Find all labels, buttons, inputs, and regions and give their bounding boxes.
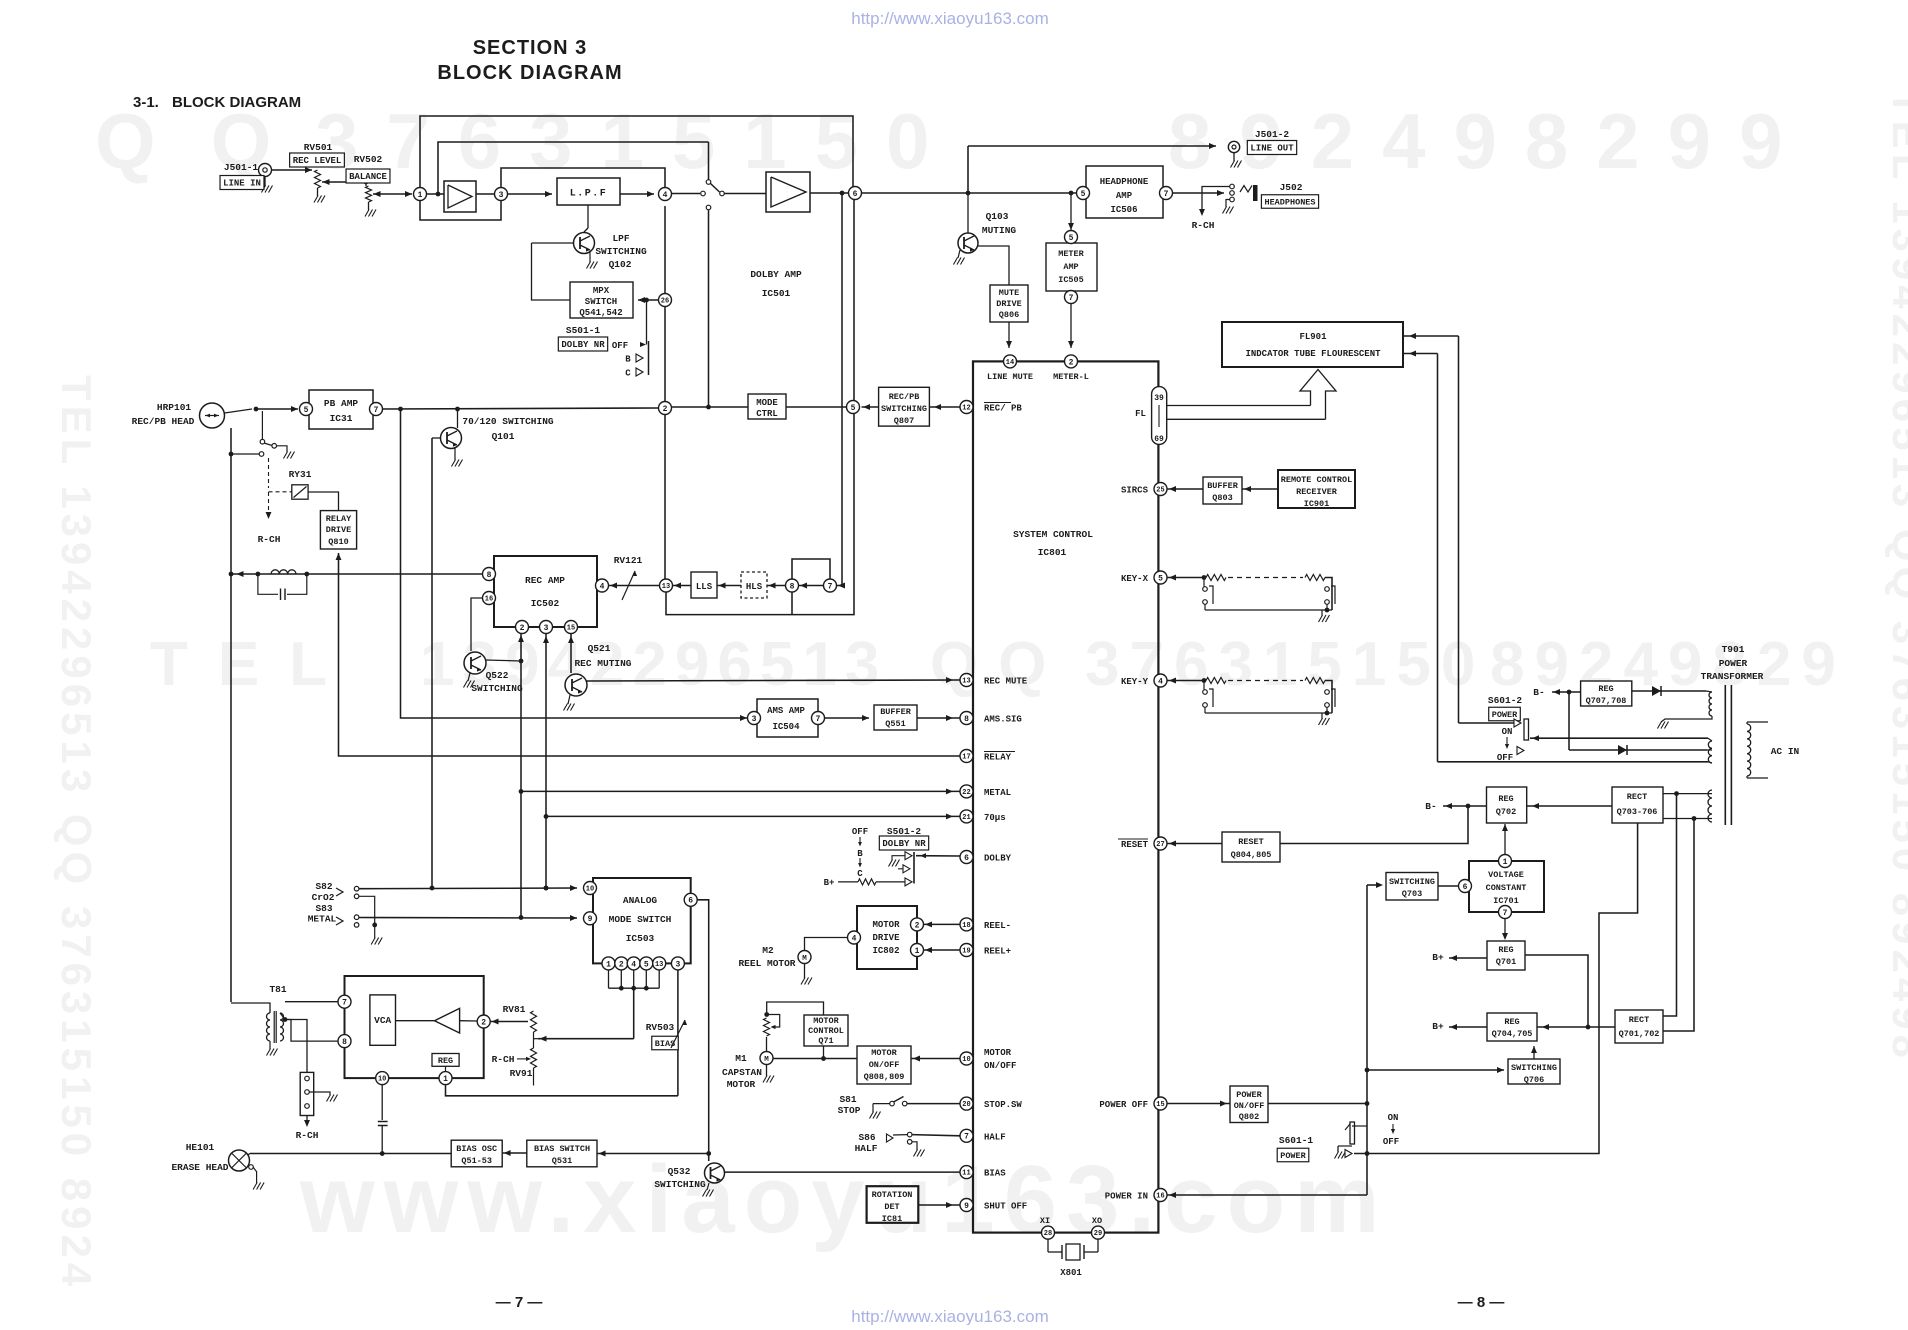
svg-text:2: 2	[1069, 358, 1074, 367]
svg-text:M: M	[764, 1056, 769, 1064]
svg-text:R-CH: R-CH	[492, 1054, 515, 1065]
svg-text:Q103: Q103	[986, 211, 1009, 222]
svg-text:S601-2: S601-2	[1488, 695, 1523, 706]
svg-text:RESET: RESET	[1238, 837, 1264, 847]
svg-text:X801: X801	[1060, 1268, 1082, 1278]
svg-text:STOP.SW: STOP.SW	[984, 1100, 1022, 1110]
svg-text:KEY-X: KEY-X	[1121, 574, 1149, 584]
svg-text:REC LEVEL: REC LEVEL	[293, 156, 342, 166]
svg-text:7: 7	[1503, 909, 1508, 918]
svg-text:ON/OFF: ON/OFF	[984, 1061, 1016, 1071]
svg-text:REG: REG	[1504, 1017, 1519, 1027]
svg-text:RV501: RV501	[304, 142, 333, 153]
svg-text:METER-L: METER-L	[1053, 372, 1089, 382]
svg-text:SYSTEM CONTROL: SYSTEM CONTROL	[1013, 529, 1093, 540]
svg-text:7: 7	[964, 1133, 969, 1142]
svg-text:ERASE HEAD: ERASE HEAD	[171, 1162, 228, 1173]
svg-text:MOTOR: MOTOR	[984, 1048, 1012, 1058]
svg-text:R-CH: R-CH	[1192, 220, 1215, 231]
svg-text:B+: B+	[1432, 1021, 1444, 1032]
svg-text:C: C	[625, 369, 631, 379]
svg-text:28: 28	[1044, 1230, 1052, 1238]
svg-text:RV502: RV502	[354, 154, 383, 165]
svg-text:S501-1: S501-1	[566, 325, 601, 336]
svg-text:— 8 —: — 8 —	[1458, 1294, 1505, 1311]
svg-text:LPF: LPF	[612, 233, 629, 244]
svg-text:M2: M2	[762, 945, 774, 956]
svg-text:AC IN: AC IN	[1771, 746, 1800, 757]
svg-text:Q701,702: Q701,702	[1619, 1029, 1660, 1039]
svg-text:7: 7	[1164, 190, 1169, 199]
svg-text:SECTION 3: SECTION 3	[473, 37, 588, 59]
svg-text:4: 4	[600, 582, 605, 591]
svg-text:18: 18	[962, 922, 970, 930]
svg-text:7: 7	[374, 406, 379, 415]
svg-text:POWER: POWER	[1719, 658, 1748, 669]
svg-text:IC31: IC31	[330, 413, 353, 424]
svg-text:AMP: AMP	[1063, 262, 1078, 272]
svg-text:REC AMP: REC AMP	[525, 575, 565, 586]
svg-text:8: 8	[964, 715, 969, 724]
svg-text:M: M	[802, 955, 807, 963]
svg-text:MOTOR: MOTOR	[813, 1016, 839, 1026]
svg-text:5: 5	[1069, 234, 1074, 243]
svg-text:SWITCHING: SWITCHING	[595, 246, 647, 257]
svg-text:7: 7	[816, 715, 821, 724]
svg-text:ON: ON	[1502, 727, 1513, 737]
svg-text:5: 5	[1158, 574, 1163, 583]
svg-text:DRIVE: DRIVE	[996, 299, 1022, 309]
svg-text:Q810: Q810	[328, 537, 348, 547]
svg-text:DOLBY NR: DOLBY NR	[561, 340, 605, 350]
svg-text:VCA: VCA	[374, 1015, 391, 1026]
svg-text:— 7 —: — 7 —	[496, 1294, 543, 1311]
svg-text:9: 9	[588, 915, 593, 924]
svg-text:Q541,542: Q541,542	[579, 308, 622, 318]
svg-text:13: 13	[962, 678, 970, 686]
svg-text:IC505: IC505	[1058, 275, 1084, 285]
svg-text:HALF: HALF	[855, 1143, 878, 1154]
svg-text:QQ: QQ	[930, 630, 1066, 699]
svg-text:MUTING: MUTING	[982, 225, 1017, 236]
svg-text:OFF: OFF	[1383, 1137, 1399, 1147]
svg-text:7: 7	[1069, 294, 1074, 303]
svg-text:3: 3	[675, 960, 680, 969]
svg-text:SWITCHING: SWITCHING	[881, 404, 927, 414]
svg-text:B-: B-	[1425, 801, 1436, 812]
svg-text:16: 16	[1156, 1193, 1164, 1201]
svg-text:1: 1	[915, 947, 920, 956]
svg-text:2: 2	[915, 921, 920, 930]
svg-text:METAL: METAL	[984, 788, 1011, 798]
svg-text:S81: S81	[839, 1094, 856, 1105]
svg-text:29: 29	[1094, 1230, 1102, 1238]
svg-text:Q71: Q71	[818, 1036, 833, 1046]
svg-text:17: 17	[962, 754, 970, 762]
svg-text:LINE MUTE: LINE MUTE	[987, 372, 1033, 382]
svg-text:MOTOR: MOTOR	[727, 1079, 756, 1090]
svg-text:B-: B-	[1533, 687, 1544, 698]
svg-text:CrO2: CrO2	[312, 892, 335, 903]
svg-text:RECT: RECT	[1629, 1015, 1649, 1025]
svg-text:RELAY: RELAY	[984, 753, 1012, 763]
svg-text:Q102: Q102	[609, 259, 632, 270]
svg-text:ANALOG: ANALOG	[623, 895, 658, 906]
svg-text:13: 13	[655, 961, 663, 969]
svg-text:INDCATOR TUBE FLOURESCENT: INDCATOR TUBE FLOURESCENT	[1245, 349, 1381, 359]
svg-text:TEL 13942296513 QQ 376315150 8: TEL 13942296513 QQ 376315150 892498	[1884, 90, 1908, 1063]
svg-text:REC/PB: REC/PB	[889, 392, 920, 402]
svg-text:BUFFER: BUFFER	[1207, 481, 1239, 491]
svg-text:21: 21	[962, 814, 970, 822]
svg-text:HLS: HLS	[746, 582, 763, 592]
svg-text:SIRCS: SIRCS	[1121, 486, 1149, 496]
svg-text:REG: REG	[1598, 684, 1613, 694]
svg-text:16: 16	[485, 596, 493, 604]
svg-text:6: 6	[964, 854, 969, 863]
svg-text:5: 5	[851, 404, 856, 413]
svg-text:DRIVE: DRIVE	[326, 525, 352, 535]
svg-text:RECEIVER: RECEIVER	[1296, 487, 1338, 497]
svg-text:CONTROL: CONTROL	[808, 1026, 844, 1036]
svg-text:REEL-: REEL-	[984, 921, 1011, 931]
svg-text:27: 27	[1156, 841, 1164, 849]
svg-text:9: 9	[964, 1202, 969, 1211]
svg-text:Q101: Q101	[492, 431, 515, 442]
svg-text:15: 15	[1156, 1101, 1164, 1109]
svg-text:IC701: IC701	[1493, 896, 1519, 906]
svg-text:J501-2: J501-2	[1255, 129, 1290, 140]
svg-text:T901: T901	[1722, 644, 1745, 655]
svg-text:REC MUTE: REC MUTE	[984, 677, 1028, 687]
svg-text:OFF: OFF	[852, 827, 868, 837]
svg-text:19: 19	[962, 948, 970, 956]
svg-text:B: B	[625, 355, 631, 365]
svg-text:S83: S83	[315, 903, 332, 914]
svg-text:IC502: IC502	[531, 598, 560, 609]
svg-text:3: 3	[544, 624, 549, 633]
svg-text:CTRL: CTRL	[756, 409, 778, 419]
svg-text:RV503: RV503	[646, 1022, 675, 1033]
svg-text:REG: REG	[1498, 794, 1513, 804]
svg-text:BIAS: BIAS	[655, 1039, 675, 1049]
svg-text:Q703: Q703	[1402, 889, 1422, 899]
svg-text:SWITCHING: SWITCHING	[654, 1179, 706, 1190]
svg-text:12: 12	[962, 405, 970, 413]
svg-text:ON/OFF: ON/OFF	[1234, 1101, 1265, 1111]
svg-text:8: 8	[342, 1038, 347, 1047]
svg-text:AMS.SIG: AMS.SIG	[984, 715, 1022, 725]
svg-text:AMS AMP: AMS AMP	[767, 706, 805, 716]
svg-text:3-1.: 3-1.	[133, 94, 159, 111]
svg-text:SWITCH: SWITCH	[585, 297, 617, 307]
svg-text:DOLBY AMP: DOLBY AMP	[750, 269, 802, 280]
svg-text:RECT: RECT	[1627, 792, 1647, 802]
svg-text:R-CH: R-CH	[296, 1130, 319, 1141]
svg-text:J501-1: J501-1	[224, 162, 259, 173]
svg-text:4: 4	[1158, 677, 1163, 686]
svg-text:HALF: HALF	[984, 1132, 1006, 1142]
svg-text:IC81: IC81	[882, 1214, 902, 1224]
svg-text:Q808,809: Q808,809	[864, 1072, 905, 1082]
svg-text:KEY-Y: KEY-Y	[1121, 677, 1149, 687]
svg-text:4: 4	[663, 191, 668, 200]
svg-text:RV81: RV81	[503, 1004, 526, 1015]
svg-text:Q702: Q702	[1496, 807, 1516, 817]
svg-text:Q804,805: Q804,805	[1231, 850, 1272, 860]
svg-text:Q803: Q803	[1212, 493, 1232, 503]
svg-text:STOP: STOP	[838, 1105, 861, 1116]
svg-text:LINE OUT: LINE OUT	[1250, 144, 1294, 154]
svg-text:METER: METER	[1058, 249, 1084, 259]
svg-text:DET: DET	[884, 1202, 899, 1212]
svg-text:1: 1	[1503, 858, 1508, 867]
svg-text:POWER IN: POWER IN	[1105, 1192, 1148, 1202]
svg-text:S82: S82	[315, 881, 332, 892]
svg-text:R-CH: R-CH	[258, 534, 281, 545]
svg-text:L.P.F: L.P.F	[570, 189, 608, 200]
svg-text:SHUT OFF: SHUT OFF	[984, 1202, 1027, 1212]
svg-text:6: 6	[853, 190, 858, 199]
svg-text:FL: FL	[1135, 409, 1146, 419]
svg-text:S501-2: S501-2	[887, 826, 922, 837]
svg-text:14: 14	[1006, 359, 1014, 367]
svg-text:REC MUTING: REC MUTING	[574, 658, 631, 669]
svg-text:Q703-706: Q703-706	[1617, 807, 1658, 817]
svg-text:SWITCHING: SWITCHING	[1389, 877, 1435, 887]
svg-text:Q701: Q701	[1496, 957, 1516, 967]
svg-text:BUFFER: BUFFER	[880, 707, 912, 717]
svg-text:M1: M1	[735, 1053, 747, 1064]
svg-text:39: 39	[1154, 394, 1164, 403]
svg-text:TEL: TEL	[150, 630, 357, 699]
svg-text:IC801: IC801	[1038, 547, 1067, 558]
svg-text:J502: J502	[1280, 182, 1303, 193]
svg-text:4: 4	[852, 934, 857, 943]
svg-text:DOLBY NR: DOLBY NR	[882, 839, 926, 849]
svg-text:POWER OFF: POWER OFF	[1099, 1100, 1148, 1110]
svg-text:S601-1: S601-1	[1279, 1135, 1314, 1146]
svg-text:Q707,708: Q707,708	[1586, 696, 1627, 706]
svg-text:TRANSFORMER: TRANSFORMER	[1701, 671, 1764, 682]
svg-text:10: 10	[378, 1076, 386, 1084]
svg-text:IC503: IC503	[626, 933, 655, 944]
svg-text:MPX: MPX	[593, 286, 610, 296]
svg-text:OFF: OFF	[612, 341, 628, 351]
svg-text:6: 6	[1463, 883, 1468, 892]
svg-text:70μs: 70μs	[984, 813, 1006, 823]
svg-text:BALANCE: BALANCE	[349, 172, 387, 182]
svg-text:11: 11	[962, 1170, 970, 1178]
svg-text:Q51-53: Q51-53	[461, 1156, 492, 1166]
svg-text:3: 3	[499, 191, 504, 200]
svg-text:Q532: Q532	[668, 1166, 691, 1177]
svg-text:METAL: METAL	[308, 914, 337, 925]
svg-text:13: 13	[662, 583, 670, 591]
svg-text:BIAS OSC: BIAS OSC	[456, 1144, 497, 1154]
svg-text:1: 1	[418, 191, 423, 200]
svg-text:T81: T81	[269, 984, 286, 995]
svg-text:AMP: AMP	[1116, 191, 1133, 201]
svg-text:IC802: IC802	[872, 946, 899, 956]
svg-text:2: 2	[663, 405, 668, 414]
svg-text:15: 15	[567, 625, 575, 633]
svg-text:FL901: FL901	[1299, 332, 1327, 342]
svg-text:MODE SWITCH: MODE SWITCH	[609, 914, 672, 925]
svg-text:RESET: RESET	[1121, 840, 1149, 850]
svg-text:IC501: IC501	[762, 288, 791, 299]
svg-text:POWER: POWER	[1280, 1151, 1306, 1161]
svg-text:5: 5	[1081, 190, 1086, 199]
svg-text:376315150: 376315150	[315, 97, 957, 185]
svg-text:DRIVE: DRIVE	[872, 933, 900, 943]
svg-text:Q807: Q807	[894, 416, 914, 426]
svg-text:http://www.xiaoyu163.com: http://www.xiaoyu163.com	[851, 9, 1048, 28]
svg-text:Q704,705: Q704,705	[1492, 1029, 1533, 1039]
svg-text:ON/OFF: ON/OFF	[869, 1060, 900, 1070]
svg-text:RV121: RV121	[614, 555, 643, 566]
svg-text:LLS: LLS	[696, 582, 713, 592]
svg-text:Q802: Q802	[1239, 1112, 1259, 1122]
svg-text:BLOCK DIAGRAM: BLOCK DIAGRAM	[437, 62, 622, 84]
svg-text:REEL+: REEL+	[984, 947, 1011, 957]
svg-text:BLOCK DIAGRAM: BLOCK DIAGRAM	[172, 94, 301, 111]
svg-text:5: 5	[304, 406, 309, 415]
svg-text:CAPSTAN: CAPSTAN	[722, 1067, 762, 1078]
svg-text:70/120 SWITCHING: 70/120 SWITCHING	[462, 416, 554, 427]
svg-text:2: 2	[619, 960, 624, 969]
svg-text:MUTE: MUTE	[999, 288, 1019, 298]
svg-text:C: C	[857, 869, 863, 879]
svg-text:376315150: 376315150	[1085, 630, 1485, 699]
svg-text:REC/ PB: REC/ PB	[984, 404, 1022, 414]
svg-text:SWITCHING: SWITCHING	[1511, 1063, 1557, 1073]
svg-text:MOTOR: MOTOR	[872, 920, 900, 930]
svg-text:MOTOR: MOTOR	[871, 1048, 897, 1058]
svg-text:SWITCHING: SWITCHING	[471, 683, 523, 694]
svg-text:B+: B+	[824, 878, 835, 888]
svg-text:BIAS SWITCH: BIAS SWITCH	[534, 1144, 590, 1154]
svg-text:2: 2	[520, 624, 525, 633]
svg-text:6: 6	[688, 897, 693, 906]
svg-text:8: 8	[487, 571, 492, 580]
svg-text:7: 7	[342, 999, 347, 1008]
svg-text:HEADPHONES: HEADPHONES	[1264, 198, 1315, 208]
svg-text:RY31: RY31	[289, 469, 312, 480]
svg-text:VOLTAGE: VOLTAGE	[1488, 870, 1524, 880]
svg-text:MODE: MODE	[756, 398, 778, 408]
svg-text:20: 20	[962, 1101, 970, 1109]
svg-text:8: 8	[790, 582, 795, 591]
svg-text:BIAS: BIAS	[984, 1169, 1006, 1179]
svg-text:CONSTANT: CONSTANT	[1486, 883, 1527, 893]
svg-text:HEADPHONE: HEADPHONE	[1100, 177, 1149, 187]
svg-text:B+: B+	[1432, 952, 1444, 963]
svg-text:IC901: IC901	[1304, 499, 1330, 509]
svg-text:Q531: Q531	[552, 1156, 572, 1166]
svg-text:Q522: Q522	[486, 670, 509, 681]
svg-text:4: 4	[631, 960, 636, 969]
svg-text:Q551: Q551	[885, 719, 905, 729]
svg-text:3: 3	[752, 715, 757, 724]
svg-text:LINE IN: LINE IN	[223, 179, 261, 189]
svg-text:Q521: Q521	[588, 643, 611, 654]
svg-text:RV91: RV91	[510, 1068, 533, 1079]
svg-text:1: 1	[443, 1075, 448, 1084]
svg-text:Q806: Q806	[999, 310, 1019, 320]
svg-text:10: 10	[962, 1056, 970, 1064]
svg-text:REC/PB HEAD: REC/PB HEAD	[132, 416, 195, 427]
svg-text:REG: REG	[1498, 945, 1513, 955]
svg-text:26: 26	[661, 298, 669, 306]
svg-text:POWER: POWER	[1236, 1090, 1262, 1100]
svg-text:ROTATION: ROTATION	[872, 1190, 913, 1200]
svg-text:1: 1	[606, 960, 611, 969]
svg-text:IC506: IC506	[1110, 205, 1137, 215]
svg-text:http://www.xiaoyu163.com: http://www.xiaoyu163.com	[851, 1307, 1048, 1325]
svg-text:XO: XO	[1092, 1216, 1102, 1226]
svg-text:69: 69	[1154, 435, 1164, 444]
svg-text:S86: S86	[858, 1132, 875, 1143]
svg-text:REMOTE CONTROL: REMOTE CONTROL	[1281, 475, 1352, 485]
svg-text:XI: XI	[1040, 1216, 1050, 1226]
svg-text:10: 10	[586, 886, 594, 894]
svg-text:B: B	[857, 849, 863, 859]
svg-text:7: 7	[828, 582, 833, 591]
svg-text:5: 5	[644, 960, 649, 969]
svg-text:REG: REG	[438, 1056, 453, 1066]
svg-text:22: 22	[962, 789, 970, 797]
svg-text:REEL MOTOR: REEL MOTOR	[738, 958, 795, 969]
svg-text:IC504: IC504	[772, 722, 800, 732]
svg-text:Q706: Q706	[1524, 1075, 1544, 1085]
svg-text:ON: ON	[1388, 1113, 1399, 1123]
svg-text:HE101: HE101	[186, 1142, 215, 1153]
svg-text:HRP101: HRP101	[157, 402, 192, 413]
svg-text:25: 25	[1156, 487, 1164, 495]
svg-text:TEL 13942296513 QQ 376315150 8: TEL 13942296513 QQ 376315150 8924	[53, 375, 100, 1291]
svg-text:RELAY: RELAY	[326, 514, 352, 524]
svg-text:2: 2	[481, 1018, 486, 1027]
svg-text:PB AMP: PB AMP	[324, 398, 359, 409]
svg-text:DOLBY: DOLBY	[984, 854, 1012, 864]
